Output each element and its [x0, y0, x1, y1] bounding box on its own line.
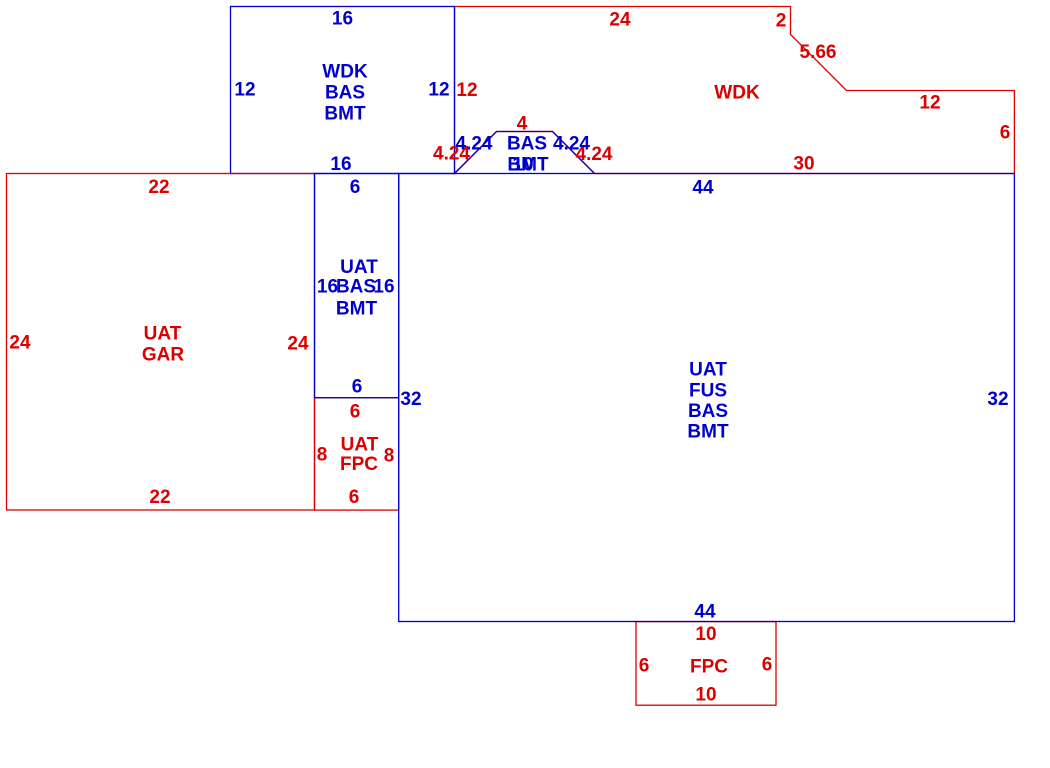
- svg-text:6: 6: [762, 655, 773, 676]
- svg-text:44: 44: [692, 178, 714, 199]
- room WDK outline (red polygon, top-right): [455, 7, 1015, 174]
- svg-text:44: 44: [694, 602, 716, 623]
- svg-text:22: 22: [148, 177, 169, 198]
- svg-text:6: 6: [352, 377, 363, 398]
- svg-text:UAT: UAT: [689, 360, 727, 381]
- room WDK BAS BMT outline (blue, top-left): [231, 7, 455, 174]
- room UAT GAR outline (red, left): [7, 174, 315, 511]
- svg-text:5.66: 5.66: [800, 42, 837, 63]
- room FPC outline (red, bottom): [636, 622, 776, 706]
- svg-text:32: 32: [400, 389, 421, 410]
- svg-text:BMT: BMT: [324, 104, 366, 125]
- svg-text:24: 24: [287, 334, 309, 355]
- svg-text:12: 12: [428, 80, 449, 101]
- svg-text:FUS: FUS: [689, 381, 727, 402]
- room UAT FUS BAS BMT outline (blue, large): [399, 174, 1015, 622]
- svg-text:10: 10: [512, 155, 533, 176]
- svg-text:32: 32: [987, 389, 1008, 410]
- svg-text:8: 8: [317, 445, 328, 466]
- svg-text:BAS: BAS: [688, 401, 728, 422]
- svg-text:10: 10: [695, 685, 716, 706]
- svg-text:12: 12: [919, 93, 940, 114]
- svg-text:22: 22: [149, 487, 170, 508]
- svg-text:6: 6: [349, 487, 360, 508]
- svg-text:16: 16: [332, 9, 353, 30]
- svg-text:FPC: FPC: [340, 454, 378, 475]
- svg-text:GAR: GAR: [142, 345, 185, 366]
- svg-text:BAS: BAS: [507, 134, 547, 155]
- svg-text:FPC: FPC: [690, 657, 728, 678]
- svg-text:24: 24: [609, 10, 631, 31]
- svg-text:6: 6: [350, 402, 361, 423]
- svg-text:BMT: BMT: [687, 422, 729, 443]
- svg-text:16: 16: [373, 277, 394, 298]
- svg-text:4.24: 4.24: [456, 134, 493, 155]
- svg-text:10: 10: [695, 624, 716, 645]
- svg-text:24: 24: [9, 333, 31, 354]
- svg-text:4.24: 4.24: [553, 134, 590, 155]
- svg-text:WDK: WDK: [714, 83, 760, 104]
- svg-text:6: 6: [639, 656, 650, 677]
- room UAT FPC outline (red, small, below narrow box): [315, 398, 399, 510]
- room UAT BAS BMT outline (blue, narrow): [315, 174, 399, 398]
- svg-text:12: 12: [456, 80, 477, 101]
- svg-text:4: 4: [517, 114, 528, 135]
- svg-text:WDK: WDK: [322, 62, 368, 83]
- svg-text:BAS: BAS: [325, 83, 365, 104]
- svg-text:6: 6: [1000, 123, 1011, 144]
- svg-text:UAT: UAT: [144, 324, 182, 345]
- svg-text:BAS: BAS: [336, 277, 376, 298]
- svg-text:12: 12: [234, 80, 255, 101]
- svg-text:16: 16: [330, 154, 351, 175]
- svg-text:2: 2: [776, 11, 787, 32]
- svg-text:UAT: UAT: [340, 257, 378, 278]
- svg-text:UAT: UAT: [341, 435, 379, 456]
- svg-text:BMT: BMT: [336, 299, 378, 320]
- svg-text:6: 6: [350, 177, 361, 198]
- svg-text:16: 16: [317, 277, 338, 298]
- svg-text:30: 30: [793, 154, 814, 175]
- bay window trapezoid outline (blue): [455, 132, 595, 174]
- svg-text:8: 8: [384, 446, 395, 467]
